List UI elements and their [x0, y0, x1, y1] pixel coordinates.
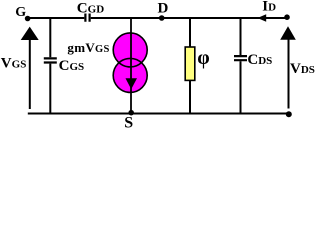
svg-text:VDS: VDS [290, 61, 315, 77]
svg-text:CGS: CGS [59, 58, 85, 74]
svg-text:D: D [158, 1, 169, 17]
svg-text:ID: ID [262, 0, 276, 15]
svg-text:G: G [15, 5, 26, 20]
svg-text:CDS: CDS [247, 52, 272, 68]
svg-text:CGD: CGD [77, 1, 104, 17]
svg-text:S: S [124, 115, 133, 130]
svg-text:φ: φ [197, 47, 209, 69]
svg-text:VGS: VGS [1, 56, 27, 72]
